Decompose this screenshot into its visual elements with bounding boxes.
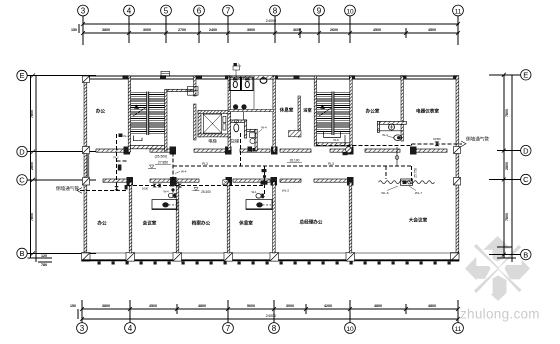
svg-text:5000: 5000 <box>247 304 255 308</box>
svg-text:B: B <box>523 250 528 259</box>
svg-text:B: B <box>19 249 24 258</box>
svg-text:办公: 办公 <box>96 108 106 115</box>
wavy line fixture <box>401 179 413 185</box>
stair1 rail <box>146 92 149 136</box>
divider below mid wall <box>243 112 245 120</box>
left wall <box>84 76 87 261</box>
svg-text:休息室: 休息室 <box>238 220 253 227</box>
wall office divider <box>401 76 403 141</box>
fittings near counter2 riser <box>261 169 268 185</box>
svg-text:3800: 3800 <box>102 304 110 308</box>
wavy water line <box>379 181 435 184</box>
svg-text:6: 6 <box>197 7 202 16</box>
svg-text:DN50: DN50 <box>433 137 441 141</box>
tick slashes top band <box>81 22 460 35</box>
oval fixture <box>234 124 239 132</box>
svg-text:PL2: PL2 <box>114 156 119 160</box>
svg-text:7800: 7800 <box>505 109 509 117</box>
top dim line bays <box>83 32 459 34</box>
stall divider <box>253 77 255 109</box>
counter 2 <box>246 200 272 210</box>
svg-text:会议室: 会议室 <box>142 220 157 227</box>
bottom wall under-ticks <box>98 262 451 265</box>
svg-text:WL-2: WL-2 <box>282 189 289 193</box>
svg-text:4500: 4500 <box>149 304 157 308</box>
svg-text:2800: 2800 <box>505 162 509 170</box>
svg-text:24000: 24000 <box>266 314 277 318</box>
svg-text:3000: 3000 <box>286 304 294 308</box>
elevator door <box>223 116 226 122</box>
svg-text:3600: 3600 <box>293 28 301 32</box>
grid circle 3 top <box>78 5 464 16</box>
svg-text:24000: 24000 <box>266 19 277 23</box>
svg-text:2800: 2800 <box>30 162 34 170</box>
svg-text:WL-7: WL-7 <box>415 191 422 195</box>
bottom wall <box>82 253 459 260</box>
svg-text:C: C <box>523 175 529 184</box>
svg-text:D: D <box>19 147 25 156</box>
svg-text:4800: 4800 <box>428 304 436 308</box>
svg-text:W-4: W-4 <box>382 133 388 137</box>
corridor lower wall segments <box>103 179 348 182</box>
vent pipe arrow right <box>461 141 466 147</box>
corridor upper wall segments <box>96 149 447 152</box>
stair2 vent drop <box>344 135 346 147</box>
elbow to wavy fixture <box>385 166 387 179</box>
svg-text:办公: 办公 <box>97 220 107 227</box>
svg-text:10: 10 <box>346 326 354 333</box>
top wall <box>84 76 459 79</box>
svg-text:1600: 1600 <box>142 186 149 190</box>
wall grid7 toilet left <box>228 76 230 111</box>
left wall columns <box>82 76 91 261</box>
right wall <box>456 76 459 261</box>
round sink <box>260 78 267 84</box>
top dim line total <box>83 23 459 25</box>
urinals <box>233 104 238 109</box>
svg-text:4: 4 <box>128 324 133 333</box>
svg-text:3900: 3900 <box>247 28 255 32</box>
svg-text:4200: 4200 <box>324 304 332 308</box>
svg-text:11: 11 <box>455 9 462 16</box>
vent pipe valve <box>435 142 440 147</box>
main pipe mid <box>173 133 411 198</box>
svg-text:PL3: PL3 <box>328 162 334 166</box>
stair2 arrow <box>319 108 332 117</box>
svg-text:3800: 3800 <box>102 28 110 32</box>
stair1 treads <box>131 93 165 134</box>
pipe fittings cluster at riser <box>153 183 182 191</box>
stair2 down-hook <box>324 132 341 138</box>
svg-text:7800: 7800 <box>505 213 509 221</box>
vent stack connector <box>396 147 398 166</box>
svg-text:25.300: 25.300 <box>201 190 211 194</box>
stair1 bottom landing wall <box>131 145 165 148</box>
svg-text:zhulong.com: zhulong.com <box>460 307 540 322</box>
stair2 treads <box>317 93 350 134</box>
svg-text:4: 4 <box>127 7 132 16</box>
corridor lower wall columns <box>127 177 354 186</box>
right wall columns <box>451 147 461 262</box>
wall grid5 stair1 right <box>165 90 167 153</box>
floor drain in lower corridor wall <box>223 180 229 185</box>
toilet stall 1 <box>230 77 241 90</box>
svg-text:W-1: W-1 <box>251 190 257 194</box>
svg-text:C: C <box>19 176 25 185</box>
riser labels near stair1 <box>114 165 127 191</box>
svg-text:120: 120 <box>41 254 47 258</box>
top bay dimension numbers <box>71 28 436 32</box>
svg-text:W-4: W-4 <box>163 190 169 194</box>
wall grid4 stair1 left <box>128 76 130 152</box>
wall grid10 stair2 right <box>350 76 352 152</box>
svg-text:3000: 3000 <box>143 28 151 32</box>
svg-text:电器仪表室: 电器仪表室 <box>416 108 439 115</box>
svg-text:2700: 2700 <box>178 28 186 32</box>
elevator shaft walls <box>198 111 201 137</box>
svg-text:4800: 4800 <box>198 304 206 308</box>
svg-text:780: 780 <box>41 263 47 267</box>
svg-text:3: 3 <box>81 7 86 16</box>
toilet mid wall <box>228 109 274 111</box>
svg-text:9: 9 <box>317 7 322 16</box>
grid stubs top <box>82 16 84 45</box>
wall grid9 stair2 left <box>314 76 316 146</box>
top wall columns <box>84 75 459 79</box>
svg-text:W-6: W-6 <box>333 138 339 142</box>
svg-text:4800: 4800 <box>374 304 382 308</box>
lobby top wall <box>167 89 194 91</box>
svg-text:办公室: 办公室 <box>366 108 380 115</box>
lower pipe arrow left <box>77 188 82 194</box>
svg-text:150: 150 <box>71 28 77 32</box>
svg-text:26.100: 26.100 <box>290 159 300 163</box>
top wall hatch over toilet <box>230 76 273 79</box>
svg-text:E: E <box>523 71 528 80</box>
svg-text:侧墙通气管: 侧墙通气管 <box>56 185 79 192</box>
stair2 bottom landing wall <box>317 143 350 146</box>
svg-text:25.750: 25.750 <box>414 168 418 178</box>
small wc room <box>247 129 258 131</box>
svg-text:电梯: 电梯 <box>208 138 216 145</box>
wall lobby/elevator divider <box>194 76 196 96</box>
svg-text:PL3: PL3 <box>202 162 208 166</box>
svg-text:(26.500): (26.500) <box>155 155 168 159</box>
svg-text:3: 3 <box>80 324 85 333</box>
svg-text:WL-6: WL-6 <box>381 191 388 195</box>
svg-text:休息室: 休息室 <box>279 107 294 114</box>
svg-text:7: 7 <box>226 7 231 16</box>
svg-text:8: 8 <box>273 7 278 16</box>
lower pipe <box>80 134 265 190</box>
svg-text:XL-1: XL-1 <box>123 134 129 138</box>
svg-text:27.850: 27.850 <box>158 161 168 165</box>
svg-text:W-4: W-4 <box>261 126 267 130</box>
svg-text:7: 7 <box>226 324 231 333</box>
svg-text:W-4: W-4 <box>181 170 187 174</box>
bottom wall columns <box>126 253 355 262</box>
elevator car <box>203 114 221 133</box>
svg-text:7800: 7800 <box>30 110 34 118</box>
watermark logo <box>465 236 530 301</box>
wall grid8 toilet right <box>273 76 276 152</box>
svg-text:7800: 7800 <box>30 213 34 221</box>
level note 27.850 <box>148 155 171 169</box>
corridor upper wall columns <box>124 147 417 155</box>
counter 1 <box>152 200 177 210</box>
stair2 rail <box>331 92 334 136</box>
svg-text:2600: 2600 <box>330 28 338 32</box>
grid circle E right <box>521 70 531 260</box>
svg-text:总经理办公: 总经理办公 <box>300 219 323 226</box>
svg-text:大会议室: 大会议室 <box>409 217 428 224</box>
grid circle E left <box>17 70 27 258</box>
svg-text:E: E <box>19 71 24 80</box>
svg-text:11: 11 <box>455 326 462 333</box>
svg-text:侧墙通气管: 侧墙通气管 <box>466 136 489 143</box>
svg-text:4500: 4500 <box>428 28 436 32</box>
svg-text:150: 150 <box>70 304 76 308</box>
svg-text:8: 8 <box>272 324 277 333</box>
svg-text:4500: 4500 <box>373 28 381 32</box>
svg-text:档案办公: 档案办公 <box>192 220 211 227</box>
lobby shaft box <box>188 87 199 96</box>
toilet stall 2 <box>241 77 253 90</box>
svg-text:2400: 2400 <box>209 28 217 32</box>
svg-text:10: 10 <box>346 9 354 16</box>
grid circle 3 bottom <box>77 323 464 334</box>
vent pipe top (to right wall) <box>317 144 462 146</box>
stair1 arrow <box>133 108 146 117</box>
wall rest/bath divider <box>298 96 300 137</box>
wc room walls right of elevator <box>231 120 247 122</box>
stair1 down-hook <box>134 136 143 141</box>
left wall door leaf <box>87 154 89 179</box>
svg-text:D: D <box>523 146 529 155</box>
svg-text:浴室: 浴室 <box>303 107 312 114</box>
svg-text:5: 5 <box>164 7 169 16</box>
svg-text:货梯: 货梯 <box>231 138 239 145</box>
